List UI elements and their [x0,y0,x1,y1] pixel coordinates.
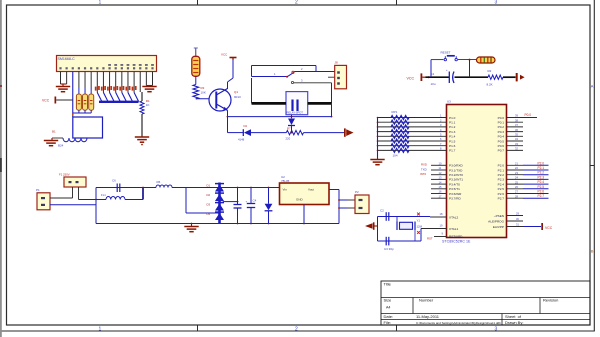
svg-text:P1: P1 [36,188,40,192]
svg-text:R3: R3 [201,86,205,90]
svg-text:C4: C4 [253,198,257,202]
svg-text:SM1668-C: SM1668-C [58,57,76,61]
svg-text:File:: File: [384,320,392,325]
svg-text:U3: U3 [447,100,451,104]
svg-text:RP1: RP1 [392,110,398,114]
svg-text:P3.4/T0: P3.4/T0 [449,182,460,186]
svg-text:D3: D3 [207,203,211,207]
svg-text:P2.7: P2.7 [538,194,545,198]
svg-text:P3.3/INT1: P3.3/INT1 [449,178,463,182]
svg-text:12M: 12M [417,225,423,229]
svg-text:220: 220 [286,137,291,141]
svg-text:P2.0: P2.0 [538,161,545,165]
svg-text:Number: Number [419,298,434,303]
svg-text:P2.6: P2.6 [538,190,545,194]
svg-text:P1.5: P1.5 [449,139,456,143]
svg-text:C6: C6 [112,179,116,183]
svg-text:P1.0: P1.0 [449,116,456,120]
svg-text:P1.2: P1.2 [449,125,456,129]
svg-text:P0.0: P0.0 [525,113,532,117]
svg-text:FL1: FL1 [101,193,106,197]
svg-text:Vout: Vout [308,187,314,191]
svg-text:XTAL1: XTAL1 [449,227,459,231]
svg-text:D2: D2 [207,193,211,197]
svg-text:VCC: VCC [545,226,553,230]
svg-text:3: 3 [495,0,498,6]
svg-text:XTAL2: XTAL2 [449,215,459,219]
svg-text:P1.4: P1.4 [449,135,456,139]
svg-text:~PSEN: ~PSEN [494,214,504,218]
svg-text:A4: A4 [386,306,390,310]
svg-text:P2.2: P2.2 [498,173,505,177]
svg-text:+: + [246,199,248,203]
svg-text:P0.5: P0.5 [498,139,505,143]
svg-text:P1.6: P1.6 [449,144,456,148]
svg-text:2: 2 [295,0,298,6]
svg-text:R6: R6 [157,180,161,184]
svg-text:P3.6/WR: P3.6/WR [449,192,462,196]
svg-text:P3.2/INT0: P3.2/INT0 [449,173,463,177]
svg-text:P2.0: P2.0 [498,164,505,168]
svg-text:1: 1 [99,0,102,6]
svg-text:10K: 10K [201,91,206,95]
svg-text:P0.0: P0.0 [498,116,505,120]
svg-text:RELAY-SPDT: RELAY-SPDT [287,111,304,115]
svg-text:P2.3: P2.3 [538,175,545,179]
svg-text:C3 30p: C3 30p [384,247,394,251]
svg-text:P2.3: P2.3 [498,178,505,182]
svg-text:TXD: TXD [421,167,427,171]
svg-text:P2.5: P2.5 [538,185,545,189]
svg-text:EA/VPP: EA/VPP [493,225,504,229]
svg-text:RST: RST [427,237,433,241]
svg-text:Date:: Date: [384,314,394,319]
svg-text:P3.7/RD: P3.7/RD [449,197,461,201]
svg-text:78L05: 78L05 [281,179,290,183]
svg-text:RESET: RESET [441,51,451,55]
svg-text:VCC: VCC [221,53,228,57]
svg-text:P2.7: P2.7 [498,197,505,201]
svg-text:C2: C2 [380,208,384,212]
svg-text:P2.5: P2.5 [498,187,505,191]
svg-text:RXD: RXD [421,163,427,167]
svg-text:B1: B1 [52,130,56,134]
svg-text:P1.7: P1.7 [449,149,456,153]
svg-text:P3.1/TXD: P3.1/TXD [449,168,463,172]
svg-text:U2: U2 [281,175,285,179]
svg-text:1K: 1K [146,103,150,107]
svg-text:VCC: VCC [407,77,415,81]
svg-text:P3.0/RXD: P3.0/RXD [449,164,464,168]
svg-text:F1 250V: F1 250V [59,173,70,177]
svg-text:Vin: Vin [283,187,288,191]
svg-text:C:\Documents and Settings\Admi: C:\Documents and Settings\Administrator\… [416,321,501,325]
svg-text:P3.5/T1: P3.5/T1 [449,187,460,191]
svg-text:P2.4: P2.4 [538,180,545,184]
svg-text:3: 3 [495,326,498,332]
svg-text:B24: B24 [58,144,64,148]
svg-text:Revision: Revision [543,298,558,303]
svg-text:Y1: Y1 [417,219,421,223]
svg-text:4148: 4148 [238,137,245,141]
svg-text:D4: D4 [207,212,211,216]
svg-text:VCC: VCC [42,99,50,103]
svg-text:P2.4: P2.4 [498,182,505,186]
svg-text:P2.6: P2.6 [498,192,505,196]
svg-text:+: + [446,68,448,72]
svg-text:P2.1: P2.1 [538,166,545,170]
svg-text:INT0: INT0 [420,172,427,176]
svg-text:P2.1: P2.1 [498,168,505,172]
svg-text:104: 104 [393,154,398,158]
svg-text:2: 2 [295,326,298,332]
svg-text:P2: P2 [355,190,359,194]
svg-text:B: B [591,249,594,254]
svg-text:D2: D2 [244,124,248,128]
svg-text:8.2K: 8.2K [487,82,493,86]
svg-text:P0.1: P0.1 [498,121,505,125]
svg-text:J8: J8 [335,61,339,65]
svg-text:STC89C52RC 1E: STC89C52RC 1E [442,239,471,243]
svg-text:P0.7: P0.7 [498,149,505,153]
svg-text:A: A [591,84,594,89]
svg-text:9013: 9013 [234,95,241,99]
svg-text:P1.1: P1.1 [449,121,456,125]
svg-text:P0.3: P0.3 [498,130,505,134]
svg-text:1: 1 [99,326,102,332]
svg-text:P1.3: P1.3 [449,130,456,134]
svg-text:P0.2: P0.2 [498,125,505,129]
svg-text:ALE/PROG: ALE/PROG [488,219,504,223]
svg-text:GND: GND [296,197,304,201]
svg-text:Q1: Q1 [234,90,238,94]
svg-text:R2: R2 [488,69,492,73]
svg-text:RST/VPD: RST/VPD [449,235,463,239]
svg-text:Sheet of: Sheet of [505,314,522,319]
svg-text:D1: D1 [207,184,211,188]
svg-text:P2.2: P2.2 [538,171,545,175]
svg-text:P0.6: P0.6 [498,144,505,148]
svg-text:10u: 10u [431,82,436,86]
svg-text:Drawn By:: Drawn By: [505,320,523,325]
svg-text:Size: Size [384,298,393,303]
svg-text:Title: Title [384,282,392,287]
svg-text:11-May-2011: 11-May-2011 [416,314,440,319]
svg-text:P0.4: P0.4 [498,135,505,139]
